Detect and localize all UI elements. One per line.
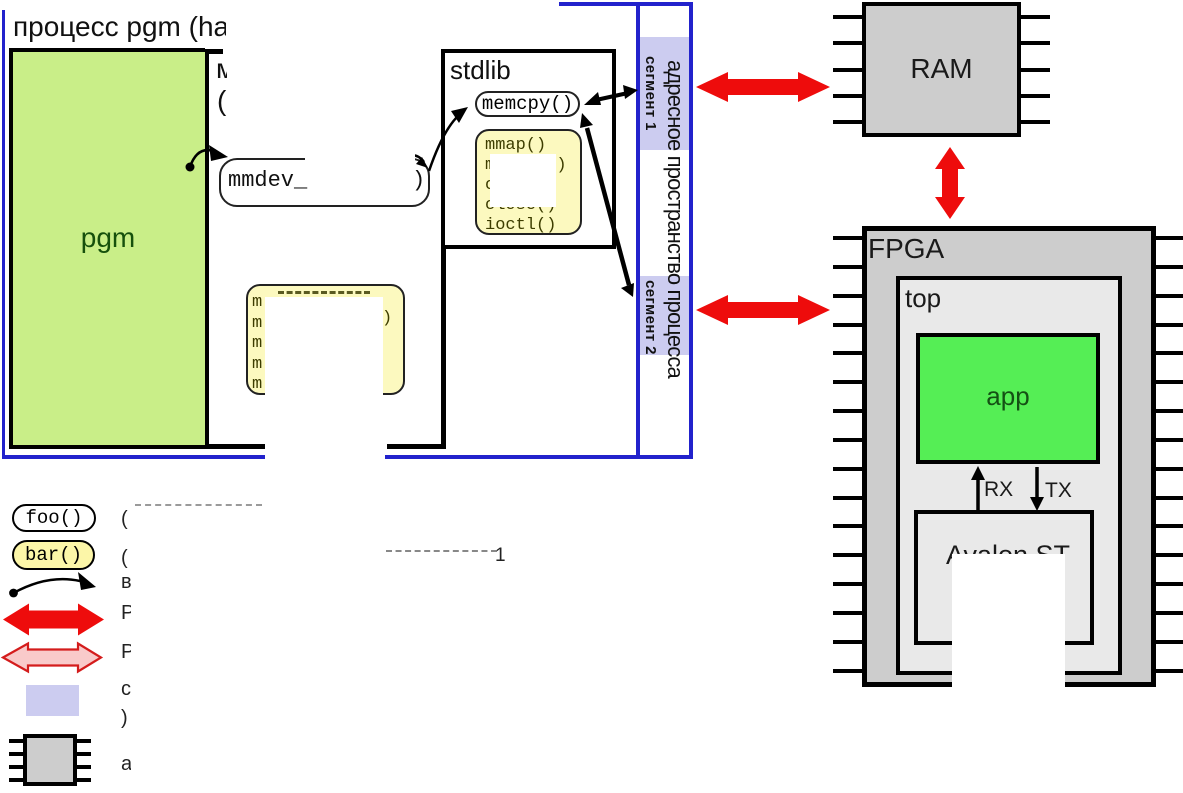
TX arrow — [1035, 467, 1039, 503]
segment 1 lavender block — [640, 37, 689, 150]
mmdev_ pill — [219, 158, 430, 207]
segment 2 lavender block — [640, 276, 689, 355]
black diagonal double arrow memcpy - segment 2 — [587, 128, 629, 285]
green pgm box — [9, 48, 205, 449]
mmap() — [485, 136, 567, 236]
legend foo() pill — [12, 504, 96, 532]
white patch over stdlib yellow box middle — [490, 154, 556, 207]
call-arrow dot (pgm to mmdev_) — [186, 163, 195, 172]
legend row1 top dashes — [135, 504, 262, 506]
FPGA chip body — [862, 226, 1156, 687]
red arrow RAM-FPGA (vertical) — [935, 147, 965, 219]
node: адресное пространство процесса (vertical) — [662, 60, 688, 378]
memcpy() pill — [475, 91, 580, 117]
black double arrow memcpy - segment 1 — [596, 93, 628, 100]
legend chip body — [23, 734, 77, 786]
RAM chip pins left — [833, 15, 864, 19]
driver box ) fragment — [382, 309, 392, 328]
legend: pink arrow — [3, 644, 101, 672]
legend text fragments — [121, 508, 131, 532]
RAM chip body — [862, 2, 1021, 137]
pgm label — [9, 222, 207, 254]
FPGA pins right — [1154, 236, 1183, 240]
legend lavender rect — [26, 685, 79, 716]
blue band right border — [689, 2, 693, 459]
title: процесс pgm (har... — [13, 11, 226, 51]
) text — [412, 168, 425, 193]
stdlib box — [441, 49, 616, 249]
hook arrow into mmdev_ right end — [411, 155, 424, 162]
stdlib label — [450, 55, 511, 86]
mid row dashes + 1 — [386, 550, 497, 552]
driver box top text dashes — [278, 291, 370, 294]
label сегмент 2 (vertical) — [642, 280, 659, 355]
top box — [896, 276, 1122, 675]
top label — [905, 283, 941, 314]
kernel module box borders — [205, 49, 209, 449]
legend chip pins left — [9, 739, 23, 743]
driver yellow functions box — [246, 284, 405, 395]
app green box — [916, 333, 1100, 464]
call-arrow curve mmdev_->memcpy — [429, 115, 459, 171]
legend: red arrow — [3, 604, 104, 636]
RX arrow — [976, 474, 980, 511]
blue process box top border (right segment) — [559, 2, 693, 6]
FPGA pins left — [833, 236, 864, 240]
RAM label — [862, 53, 1021, 85]
mmdev_ text — [228, 168, 307, 193]
blue process box left border — [2, 10, 5, 459]
blue band inner line — [636, 2, 640, 459]
white patch over Avalon ST / FPGA bottom — [952, 554, 1065, 793]
Avalon ST label — [918, 540, 1098, 571]
TX label — [1045, 479, 1072, 503]
legend chip pins right — [77, 739, 91, 743]
kernel module label fragments — [216, 53, 227, 81]
white patch over driver box / kernel bottom — [265, 297, 383, 560]
white patch over mmdev_ pill top — [305, 148, 415, 163]
legend: call arrow — [9, 589, 18, 598]
Avalon ST box — [914, 510, 1094, 645]
call-arrow curve pgm->mmdev_ — [190, 150, 214, 167]
legend bar() pill — [12, 540, 95, 570]
driver functions first-letter slivers — [252, 293, 262, 396]
RX label — [984, 478, 1013, 502]
app label — [916, 381, 1100, 412]
FPGA label — [868, 233, 944, 265]
stdlib yellow functions box — [475, 129, 582, 235]
blue process box bottom border (left segment) — [2, 455, 265, 459]
red arrow band-FPGA — [696, 295, 830, 325]
label сегмент 1 (vertical) — [642, 56, 659, 131]
RAM chip pins right — [1019, 15, 1050, 19]
red arrow band-RAM — [696, 72, 830, 102]
blue process box bottom border (right segment) — [385, 455, 693, 459]
